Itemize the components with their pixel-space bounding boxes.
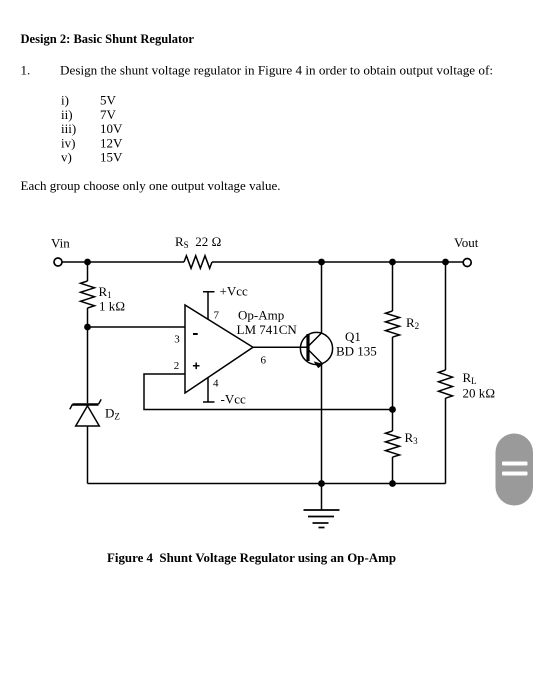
svg-text:Design 2: Basic Shunt Regulato: Design 2: Basic Shunt Regulator: [21, 31, 195, 46]
svg-text:RL: RL: [463, 370, 477, 386]
power +Vcc T symbol (pin 7): [203, 292, 215, 320]
svg-text:12V: 12V: [100, 135, 123, 150]
power -Vcc T symbol (pin 4): [203, 378, 215, 403]
op-amp U1 triangle: [185, 305, 253, 393]
svg-text:10V: 10V: [100, 121, 123, 136]
svg-text:Vout: Vout: [454, 235, 479, 250]
wire: top rail from Vin to Rs: [62, 261, 184, 263]
label -Vcc: [221, 392, 246, 407]
label Q1: [345, 329, 361, 344]
svg-text:Q1: Q1: [345, 329, 361, 344]
svg-text:3: 3: [174, 334, 180, 346]
resistor R2 (vertical): [386, 311, 400, 337]
label R2: [406, 315, 419, 331]
zener diode DZ: [70, 399, 101, 426]
wire: Q1 emitter to bottom rail: [321, 364, 323, 484]
op-amp noninverting input plus sign: [193, 363, 200, 370]
resistor RL (20 kohm, vertical): [439, 370, 453, 398]
resistor RS (22 ohm, horizontal): [184, 256, 212, 269]
node: junction rail/RL: [442, 259, 449, 266]
svg-text:+Vcc: +Vcc: [220, 284, 248, 299]
svg-text:iv): iv): [61, 135, 75, 150]
wire: op-amp output pin 6 to Q1 base: [253, 346, 308, 348]
wire: R3 bottom lead: [392, 457, 394, 484]
svg-text:i): i): [61, 92, 69, 107]
circuit labels: [51, 234, 495, 446]
label R1 value 1 kohm: [99, 299, 125, 314]
svg-text:Each group choose only one out: Each group choose only one output voltag…: [21, 178, 281, 193]
pin 7: [214, 309, 220, 321]
svg-text:Figure 4 Shunt Voltage Regula: Figure 4 Shunt Voltage Regulator using a…: [107, 550, 396, 565]
transistor Q1 (NPN): [300, 332, 332, 368]
document text: [21, 31, 494, 565]
svg-text:DZ: DZ: [105, 406, 120, 422]
svg-text:Design the shunt voltage regul: Design the shunt voltage regulator in Fi…: [60, 63, 493, 78]
wire: bottom rail: [88, 483, 446, 485]
label Q1 value BD 135: [336, 344, 377, 359]
svg-text:Op-Amp: Op-Amp: [238, 308, 284, 323]
node: junction rail/R2: [389, 259, 396, 266]
ground symbol: [304, 484, 340, 528]
pin 3: [174, 334, 180, 346]
label LM 741CN: [237, 322, 298, 337]
wire: top rail from Rs to Vout: [212, 261, 463, 263]
wire: Dz top lead: [87, 327, 89, 403]
svg-text:20 kΩ: 20 kΩ: [463, 386, 496, 401]
node: junction R3/bottom rail: [389, 480, 396, 487]
terminal Vin: [54, 258, 62, 266]
node: junction Vin/R1: [84, 259, 91, 266]
wire: R3 top lead: [392, 410, 394, 432]
svg-text:1.: 1.: [21, 63, 31, 78]
wire: R2 top lead: [392, 262, 394, 311]
label +Vcc: [220, 284, 248, 299]
svg-text:RS 22 Ω: RS 22 Ω: [175, 234, 221, 250]
wire: R2 bottom lead: [392, 337, 394, 410]
node: junction emitter/bottom rail/ground: [318, 480, 325, 487]
svg-text:Vin: Vin: [51, 236, 70, 251]
label Op-Amp: [238, 308, 284, 323]
label RL: [463, 370, 477, 386]
svg-text:R2: R2: [406, 315, 419, 331]
svg-text:v): v): [61, 150, 72, 165]
pin 6: [261, 354, 267, 366]
resistor R3 (vertical): [386, 431, 400, 457]
svg-text:6: 6: [261, 354, 267, 366]
node: junction R2/R3/feedback: [389, 406, 396, 413]
label Rs value 22 ohm: [175, 234, 221, 250]
label RL value 20 kohm: [463, 386, 496, 401]
svg-text:LM 741CN: LM 741CN: [237, 322, 298, 337]
node: junction R1/Dz/op-amp inverting input: [84, 324, 91, 331]
pin 4: [213, 378, 219, 390]
label Vin: [51, 236, 70, 251]
svg-text:iii): iii): [61, 121, 76, 136]
wire: RL top lead: [445, 262, 447, 370]
svg-text:BD 135: BD 135: [336, 344, 377, 359]
svg-text:ii): ii): [61, 107, 73, 122]
svg-text:1 kΩ: 1 kΩ: [99, 299, 125, 314]
wire: R1 top lead: [87, 262, 89, 281]
svg-text:15V: 15V: [100, 150, 123, 165]
node: junction rail/Q1 collector: [318, 259, 325, 266]
wire: node to op-amp pin 3: [88, 326, 186, 328]
wire: RL bottom lead: [445, 398, 447, 484]
label Dz: [105, 406, 120, 422]
svg-text:5V: 5V: [100, 92, 117, 107]
wire: Dz bottom lead: [87, 426, 89, 484]
svg-text:-Vcc: -Vcc: [221, 392, 246, 407]
svg-text:7: 7: [214, 309, 220, 321]
label R3: [405, 430, 419, 446]
svg-text:2: 2: [174, 360, 180, 372]
svg-text:R3: R3: [405, 430, 419, 446]
wire: op-amp pin 2 stub and feedback to R2/R3 node: [144, 374, 393, 410]
scrollbar pill UI element: [496, 434, 534, 506]
label R1: [99, 284, 112, 300]
wire: R1 bottom lead to node: [87, 308, 89, 327]
terminal Vout: [463, 259, 471, 267]
resistor R1 (1 kohm, vertical): [81, 281, 95, 308]
pin 2: [174, 360, 180, 372]
wire: Q1 collector to top rail: [321, 262, 323, 333]
svg-text:7V: 7V: [100, 107, 117, 122]
svg-text:4: 4: [213, 378, 219, 390]
label Vout: [454, 235, 479, 250]
op-amp inverting input minus sign: [193, 333, 198, 335]
